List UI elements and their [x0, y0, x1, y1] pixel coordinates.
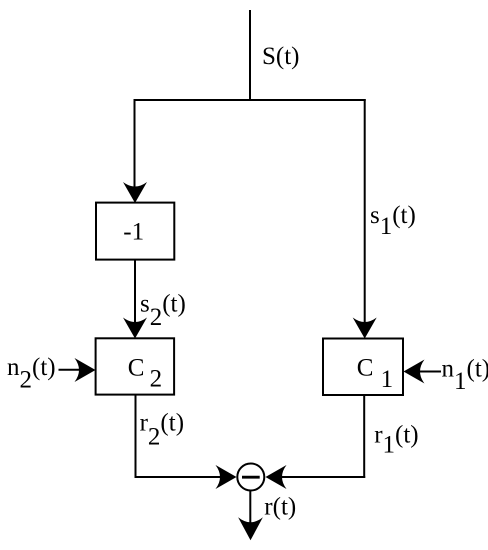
- svg-text:1: 1: [381, 366, 394, 393]
- wire: n1 input horizontal: [418, 371, 441, 373]
- wire: top horizontal branch: [134, 99, 366, 101]
- svg-text:r(t): r(t): [264, 493, 296, 520]
- wire: C1 output down: [363, 395, 365, 478]
- svg-text:-1: -1: [123, 219, 144, 246]
- block -1: [96, 203, 174, 260]
- arrowhead into C2 top: [123, 318, 147, 339]
- wire: right branch vertical into C1: [364, 99, 366, 326]
- svg-text:C: C: [128, 355, 145, 382]
- arrowhead into subtractor right: [266, 465, 287, 489]
- wire: n2 input horizontal: [59, 369, 83, 371]
- svg-text:S(t): S(t): [262, 43, 300, 70]
- wire: C2 output down: [135, 395, 137, 478]
- arrowhead n1 into C1 right: [404, 360, 425, 384]
- block C1: [323, 339, 403, 396]
- wire: subtractor output down: [249, 491, 251, 528]
- arrowhead output r(t): [238, 517, 263, 540]
- wire: bottom-left horizontal into subtractor: [135, 476, 224, 478]
- svg-text:C: C: [357, 355, 374, 382]
- svg-text:2: 2: [150, 366, 163, 393]
- block C2: [96, 338, 175, 394]
- arrowhead into C1 top: [353, 318, 377, 339]
- wire: -1 output down to C2: [134, 260, 136, 326]
- subtractor node (circle with minus): [237, 464, 264, 491]
- arrowhead n2 into C2 left: [75, 358, 96, 382]
- arrowhead into -1 box: [123, 182, 147, 203]
- minus sign: [242, 476, 260, 479]
- wire: bottom-right horizontal into subtractor: [279, 476, 365, 478]
- wire: left branch vertical into -1: [134, 99, 136, 190]
- wire: S(t) input vertical: [249, 10, 251, 100]
- arrowhead into subtractor left: [216, 465, 237, 489]
